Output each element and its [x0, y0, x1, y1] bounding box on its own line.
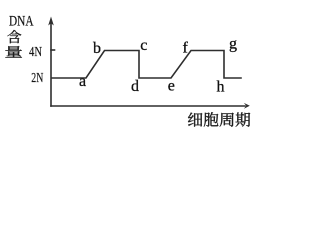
svg-text:c: c — [140, 37, 147, 54]
svg-text:d: d — [131, 78, 139, 95]
svg-text:2N: 2N — [31, 71, 43, 86]
svg-text:b: b — [93, 40, 101, 57]
svg-text:e: e — [168, 77, 175, 94]
svg-text:g: g — [229, 36, 237, 53]
svg-text:a: a — [79, 73, 86, 90]
svg-text:DNA: DNA — [9, 14, 34, 30]
svg-text:h: h — [217, 78, 225, 95]
svg-text:f: f — [183, 39, 189, 56]
svg-text:4N: 4N — [29, 45, 42, 60]
